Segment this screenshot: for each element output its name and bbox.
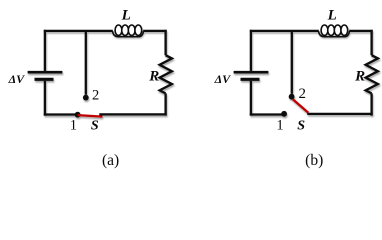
wire: bottom-right horizontal from switch pivot to resistor branch — [307, 113, 372, 115]
inductor L coil loop 2 (a) — [122, 25, 129, 35]
wire: left vertical from top wire down to battery — [44, 30, 46, 71]
wire: right vertical from resistor R down to bottom-right corner — [370, 93, 372, 115]
battery ΔV long plate (b) — [234, 71, 269, 74]
wire: top-right horizontal from inductor L to resistor branch — [143, 30, 167, 32]
inductor L coil loop 3 (b) — [334, 25, 341, 35]
wire: right vertical from top wire down to resistor R — [370, 30, 372, 55]
wire: top-left horizontal from battery branch to inductor L — [250, 30, 319, 32]
battery ΔV long plate (a) — [28, 71, 63, 74]
wire: bottom-right horizontal from switch pivot to resistor branch — [99, 113, 166, 115]
svg-text:(a): (a) — [102, 152, 119, 169]
svg-text:ΔV: ΔV — [8, 72, 26, 86]
inductor L coil loop 2 (b) — [328, 25, 335, 35]
svg-text:L: L — [327, 8, 337, 24]
svg-text:L: L — [121, 8, 131, 24]
resistor R zigzag (a) — [160, 55, 172, 93]
svg-text:S: S — [91, 119, 99, 134]
svg-text:R: R — [354, 68, 365, 84]
wire: left vertical from battery down to bottom-left corner — [44, 81, 46, 116]
battery ΔV short plate (b) — [241, 78, 260, 81]
wire: middle vertical from top wire down to switch contact 2 — [85, 30, 87, 95]
battery ΔV short plate (a) — [35, 78, 54, 81]
wire: bottom-left horizontal from battery branch to switch contact 1 — [44, 113, 78, 115]
node 2 contact dot (b) — [289, 94, 295, 100]
svg-text:1: 1 — [70, 118, 77, 134]
inductor L coil loop 4 (a) — [135, 25, 142, 35]
wire: middle vertical from top wire down to switch contact 2 — [291, 30, 293, 94]
switch S blade thrown to contact 2 (b) — [293, 99, 309, 113]
inductor L coil loop 3 (a) — [128, 25, 135, 35]
svg-text:R: R — [148, 68, 159, 84]
wire: right vertical from resistor R down to bottom-right corner — [164, 93, 166, 115]
wire: right vertical from top wire down to resistor R — [164, 30, 166, 55]
inductor L coil loop 1 (a) — [115, 25, 122, 35]
svg-text:(b): (b) — [305, 152, 323, 169]
wire: left vertical from battery down to bottom-left corner — [250, 81, 252, 116]
svg-text:2: 2 — [92, 88, 99, 104]
switch S blade closed on contact 1 (a) — [78, 115, 103, 117]
inductor L coil loop 4 (b) — [341, 25, 348, 35]
node 2 contact dot (a) — [83, 95, 89, 101]
wire: top-left horizontal from battery branch to inductor L — [44, 30, 113, 32]
svg-text:2: 2 — [299, 86, 307, 102]
inductor L coil loop 1 (b) — [321, 25, 328, 35]
node 1 contact dot (b) — [281, 111, 287, 117]
wire: left vertical from top wire down to battery — [250, 30, 252, 71]
wire: top-right horizontal from inductor L to resistor branch — [349, 30, 373, 32]
node 1 contact dot (a) — [75, 112, 81, 118]
svg-text:1: 1 — [276, 117, 283, 133]
wire: bottom-left horizontal from battery branch to switch contact 1 — [250, 113, 284, 115]
inductor L coil body (a) — [113, 31, 144, 37]
svg-text:S: S — [297, 119, 305, 134]
resistor R zigzag (b) — [366, 55, 378, 93]
svg-text:ΔV: ΔV — [214, 72, 232, 86]
inductor L coil body (b) — [319, 31, 350, 37]
